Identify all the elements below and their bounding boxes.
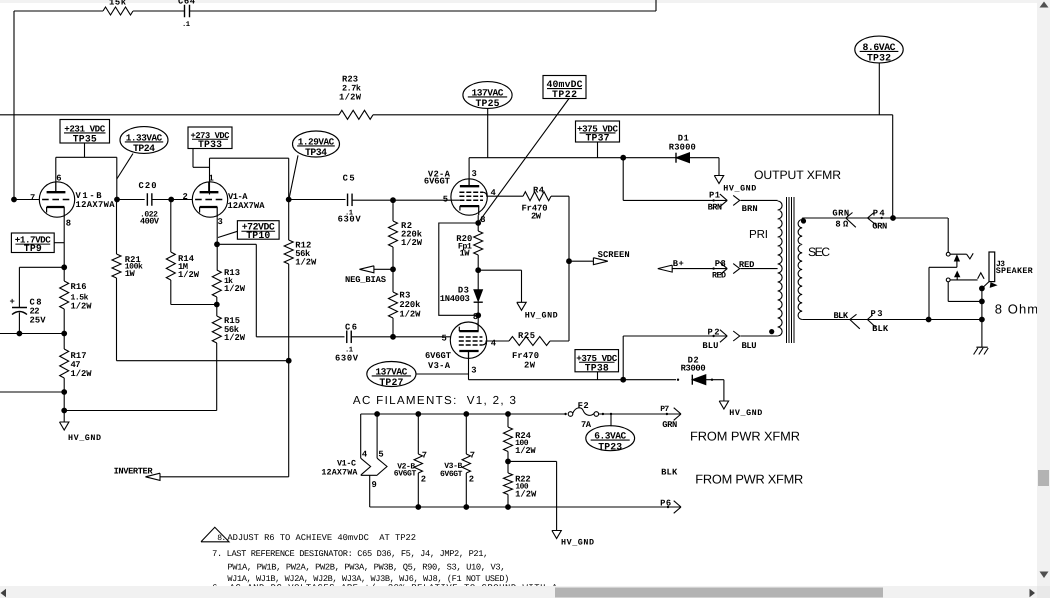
svg-text:NEG_BIAS: NEG_BIAS (345, 275, 386, 285)
svg-text:R3000: R3000 (681, 364, 706, 374)
svg-text:6.3VAC: 6.3VAC (594, 431, 626, 442)
svg-text:TP23: TP23 (598, 441, 622, 452)
svg-text:FROM PWR XFMR: FROM PWR XFMR (690, 429, 800, 444)
svg-text:1/2W: 1/2W (295, 258, 317, 268)
svg-text:8: 8 (66, 219, 71, 229)
svg-text:HV_GND: HV_GND (68, 433, 101, 443)
svg-text:HV_GND: HV_GND (729, 408, 762, 418)
svg-text:1/2W: 1/2W (224, 284, 246, 294)
svg-text:BLU: BLU (742, 341, 757, 351)
svg-text:137VAC: 137VAC (472, 87, 504, 98)
svg-text:P8: P8 (715, 259, 726, 269)
svg-text:1/2W: 1/2W (71, 369, 93, 379)
svg-text:1.33VAC: 1.33VAC (126, 132, 163, 143)
svg-text:HV_GND: HV_GND (723, 184, 756, 194)
svg-text:9: 9 (372, 480, 377, 490)
svg-text:2: 2 (421, 475, 426, 485)
svg-text:R3000: R3000 (669, 143, 696, 153)
svg-text:1/2W: 1/2W (178, 270, 200, 280)
svg-text:P3: P3 (871, 309, 883, 319)
svg-text:F2: F2 (578, 401, 589, 411)
svg-text:GRN: GRN (662, 420, 677, 430)
svg-text:TP38: TP38 (585, 362, 609, 373)
svg-text:6V6GT: 6V6GT (440, 470, 463, 479)
svg-text:R25: R25 (518, 331, 535, 341)
svg-text:8.6VAC: 8.6VAC (863, 42, 896, 53)
svg-text:P2: P2 (708, 327, 720, 337)
svg-text:BLU: BLU (702, 341, 718, 351)
svg-text:R3: R3 (399, 291, 410, 301)
svg-text:630V: 630V (338, 215, 362, 225)
svg-text:TP27: TP27 (379, 377, 403, 388)
svg-text:TP10: TP10 (246, 230, 270, 241)
svg-text:5: 5 (378, 450, 383, 460)
svg-text:SPEAKER: SPEAKER (996, 266, 1034, 276)
svg-text:5: 5 (443, 194, 448, 204)
svg-text:B+: B+ (673, 259, 684, 269)
svg-text:FROM PWR XFMR: FROM PWR XFMR (695, 472, 803, 487)
svg-text:C5: C5 (343, 174, 355, 184)
svg-text:TP37: TP37 (586, 133, 610, 144)
svg-text:1/2W: 1/2W (401, 238, 423, 248)
svg-text:1: 1 (209, 174, 214, 184)
svg-text:2: 2 (469, 475, 474, 485)
svg-text:Fr470: Fr470 (512, 351, 539, 361)
svg-text:SCREEN: SCREEN (598, 250, 630, 260)
svg-text:TP25: TP25 (476, 98, 500, 109)
svg-text:P1: P1 (709, 190, 720, 200)
svg-text:BRN: BRN (742, 204, 758, 214)
svg-text:3: 3 (471, 366, 476, 376)
svg-text:ADJUST R6 TO ACHIEVE 40mvDC A: ADJUST R6 TO ACHIEVE 40mvDC AT TP22 (227, 533, 416, 543)
svg-text:BLK: BLK (661, 468, 678, 478)
svg-text:BLK: BLK (872, 324, 889, 334)
svg-text:12AX7WA: 12AX7WA (321, 467, 358, 477)
svg-text:8: 8 (473, 312, 478, 322)
svg-text:400V: 400V (140, 217, 160, 227)
svg-text:C6: C6 (345, 323, 357, 333)
svg-text:1/2W: 1/2W (224, 333, 246, 343)
svg-text:C64: C64 (178, 0, 196, 7)
svg-text:TP33: TP33 (198, 139, 222, 150)
svg-text:7: 7 (470, 451, 475, 461)
svg-text:4: 4 (362, 450, 368, 460)
svg-text:12AX7WA: 12AX7WA (76, 200, 116, 210)
svg-text:8.: 8. (217, 534, 226, 543)
svg-text:C20: C20 (139, 181, 157, 191)
svg-text:25V: 25V (30, 316, 47, 326)
svg-text:6V6GT: 6V6GT (424, 177, 451, 187)
svg-text:BLK: BLK (834, 311, 849, 321)
svg-text:7. LAST REFERENCE DESIGNATOR:: 7. LAST REFERENCE DESIGNATOR: C65 D36, F… (212, 549, 488, 559)
svg-text:7A: 7A (581, 420, 592, 430)
svg-text:P6: P6 (660, 499, 671, 509)
svg-text:TP22: TP22 (552, 89, 577, 100)
svg-text:TP24: TP24 (133, 143, 155, 154)
svg-text:PW1A, PW1B, PW2A, PW2B, PW3A,: PW1A, PW1B, PW2A, PW2B, PW3A, PW3B, Q5, … (227, 562, 505, 572)
svg-text:TP32: TP32 (867, 53, 891, 64)
svg-text:V3-A: V3-A (428, 361, 451, 371)
svg-text:+: + (10, 297, 15, 307)
svg-text:1/2W: 1/2W (339, 93, 362, 103)
svg-text:PRI: PRI (749, 228, 768, 241)
svg-text:1.29VAC: 1.29VAC (298, 136, 335, 147)
svg-text:1/2W: 1/2W (71, 302, 93, 312)
svg-text:1N4003: 1N4003 (440, 294, 470, 304)
svg-text:OUTPUT XFMR: OUTPUT XFMR (754, 168, 841, 182)
svg-text:220k: 220k (399, 300, 421, 310)
svg-text:8: 8 (835, 219, 840, 229)
svg-text:TP9: TP9 (24, 243, 42, 254)
svg-text:GRN: GRN (872, 221, 887, 231)
svg-text:P4: P4 (873, 209, 886, 219)
svg-text:BRN: BRN (708, 202, 723, 212)
svg-text:R16: R16 (71, 282, 87, 292)
svg-text:5: 5 (442, 334, 447, 344)
svg-text:3: 3 (218, 217, 223, 227)
svg-text:P7: P7 (660, 405, 669, 414)
svg-text:7: 7 (30, 193, 35, 203)
svg-text:137VAC: 137VAC (375, 366, 407, 377)
svg-text:1/2W: 1/2W (515, 490, 537, 500)
svg-text:4: 4 (491, 338, 497, 348)
svg-text:Ω: Ω (843, 219, 849, 229)
svg-text:1W: 1W (125, 269, 136, 279)
svg-text:6V6GT: 6V6GT (425, 351, 452, 361)
svg-text:7: 7 (422, 451, 427, 461)
svg-text:.1: .1 (182, 21, 190, 29)
svg-text:INVERTER: INVERTER (114, 467, 154, 477)
svg-text:6V6GT: 6V6GT (394, 469, 417, 478)
svg-text:6: 6 (56, 173, 61, 183)
svg-text:SEC: SEC (808, 245, 830, 259)
svg-text:630V: 630V (335, 354, 359, 364)
svg-text:1/2W: 1/2W (515, 446, 536, 456)
svg-text:2: 2 (183, 192, 188, 202)
svg-text:1/2W: 1/2W (399, 310, 421, 320)
svg-text:2W: 2W (524, 361, 536, 371)
svg-text:2W: 2W (531, 212, 542, 222)
svg-text:HV_GND: HV_GND (525, 311, 558, 321)
svg-text:R4: R4 (533, 186, 545, 196)
svg-text:3: 3 (472, 169, 477, 179)
svg-text:TP35: TP35 (73, 134, 97, 145)
svg-text:12AX7WA: 12AX7WA (228, 201, 266, 211)
svg-text:1W: 1W (460, 248, 471, 258)
svg-text:15k: 15k (109, 0, 127, 8)
svg-text:HV_GND: HV_GND (561, 538, 594, 548)
svg-text:TP34: TP34 (305, 147, 327, 158)
svg-text:RED: RED (712, 271, 726, 281)
